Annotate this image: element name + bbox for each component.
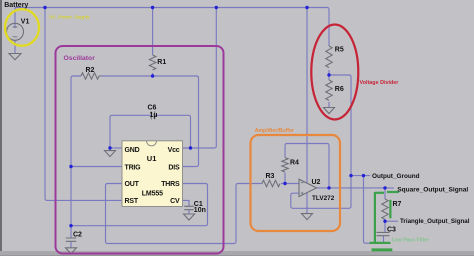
node TRIG tap (69, 165, 72, 168)
node Triangle output junction (383, 220, 386, 223)
svg-text:Square_Output_Signal: Square_Output_Signal (397, 187, 468, 194)
svg-text:Oscillator: Oscillator (64, 55, 96, 62)
annotation green bracket top-left (375, 192, 384, 194)
wire Vcc net from top rail (183, 8, 217, 149)
svg-text:1µ: 1µ (150, 112, 158, 119)
resistor R4 (282, 158, 288, 172)
annotation purple box Oscillator (56, 46, 224, 254)
wire voltage divider mid to virtual ground / op-amp non-inverting input (291, 75, 351, 208)
op-amp input polarity marks (301, 183, 304, 195)
svg-text:Battery: Battery (4, 2, 28, 9)
svg-text:R1: R1 (157, 59, 166, 66)
svg-text:RST: RST (125, 198, 139, 205)
svg-text:Output_Ground: Output_Ground (372, 173, 420, 180)
annotation green bracket left bar (374, 192, 376, 243)
svg-text:Voltage Divider: Voltage Divider (360, 80, 400, 86)
node battery rail junction (43, 6, 46, 9)
wire C3 return to Output_Ground (364, 176, 386, 244)
svg-text:U1: U1 (147, 154, 157, 163)
node Output_Ground junction 1 (349, 174, 352, 177)
wire R2 right to R1 junction to DIS (101, 76, 199, 167)
annotation green bottom bar (372, 248, 393, 251)
left window edge (0, 0, 2, 256)
op-amp U2 triangle (299, 179, 317, 196)
capacitor C1 plates (184, 206, 194, 209)
annotation orange box amplifier (251, 135, 341, 231)
node GND/C6 junction (108, 146, 111, 149)
svg-text:GND: GND (125, 147, 140, 154)
wire op-amp output row to Square node (317, 187, 395, 189)
wire Triangle label stub (385, 220, 398, 222)
annotation green mid bottom bar (370, 242, 391, 244)
wire OUT loop to R3 (106, 184, 263, 244)
node R3/R4 junction (283, 182, 286, 185)
wire C1 ground stub (188, 210, 190, 214)
wire R4 bottom lead (284, 173, 286, 184)
svg-text:CV: CV (170, 198, 180, 205)
wire C6 left leg (110, 115, 151, 148)
svg-text:DIS: DIS (168, 165, 180, 172)
wire R1 top lead (152, 8, 154, 56)
svg-text:OUT: OUT (125, 181, 140, 188)
ground op-amp V- (302, 214, 313, 220)
ground C1 (184, 214, 195, 220)
ground R6 (324, 108, 335, 114)
svg-text:TRIG: TRIG (125, 165, 142, 172)
node R1/R2 junction (151, 74, 154, 77)
wire Output_Ground label stub (351, 175, 370, 177)
wire GND pin (110, 147, 122, 149)
node R1 top rail junction (151, 6, 154, 9)
wire C3 bottom stub (383, 236, 385, 243)
svg-text:DC_Power_Supply: DC_Power_Supply (49, 15, 90, 20)
svg-text:10n: 10n (194, 207, 206, 214)
capacitor C6 plates (151, 111, 154, 119)
resistor R1 (149, 55, 155, 70)
bottom window edge (0, 251, 474, 256)
wire R3 right to op-amp inverting input (281, 183, 299, 185)
node C2 tap (69, 224, 72, 227)
wire battery top lead (14, 8, 16, 29)
battery V1 (7, 23, 24, 40)
wire C2 ground stub (70, 241, 72, 248)
node Vcc/C6 junction (189, 146, 192, 149)
svg-text:Vcc: Vcc (168, 147, 180, 154)
annotation green bracket right bar (389, 200, 391, 219)
wire C6 right leg (155, 115, 191, 148)
node op-amp output junction (327, 186, 330, 189)
IC U1 LM555 body (122, 141, 183, 207)
wire CV to C1 (183, 200, 190, 206)
svg-text:Low Pass Filter: Low Pass Filter (392, 237, 429, 243)
wire R5 bottom to R6 top (328, 70, 330, 80)
svg-text:TLV272: TLV272 (312, 195, 335, 202)
wire R7 bottom to Triangle node to C3 (384, 220, 386, 233)
wire THRS to TRIG/C2 node (71, 184, 208, 226)
svg-text:C3: C3 (387, 226, 396, 233)
svg-text:THRS: THRS (161, 181, 180, 188)
svg-text:LM555: LM555 (142, 190, 163, 197)
wire R7 top lead (384, 188, 386, 199)
svg-text:R2: R2 (86, 67, 95, 74)
svg-text:U2: U2 (312, 179, 321, 186)
svg-text:Triangle_Output_Signal: Triangle_Output_Signal (400, 218, 470, 225)
wire R6 ground stub (328, 102, 330, 108)
node op-amp supply rail junction (305, 6, 308, 9)
wire TRIG (71, 166, 122, 168)
capacitor C3 plates (377, 232, 390, 235)
svg-text:C6: C6 (148, 104, 157, 111)
wire op-amp V- ground stub (306, 193, 308, 214)
svg-text:V1: V1 (21, 19, 30, 26)
wire R4 feedback top (285, 144, 329, 188)
node divider midpoint (327, 73, 330, 76)
annotation yellow circle around battery (5, 9, 39, 46)
wire GND pin ground stub (109, 148, 111, 151)
annotation red ellipse voltage divider (311, 25, 358, 120)
svg-text:R7: R7 (393, 201, 402, 208)
wire left rail R2/TRIG/C2 (71, 76, 81, 226)
node Square output junction (383, 186, 386, 189)
wire op-amp V+ supply from top rail (306, 8, 308, 184)
resistor R6 (326, 80, 332, 100)
svg-text:C2: C2 (73, 231, 82, 238)
ground battery (9, 54, 21, 60)
resistor R3 (262, 180, 280, 186)
node Vcc rail junction (215, 6, 218, 9)
svg-text:R4: R4 (290, 159, 299, 166)
resistor R2 (81, 73, 101, 79)
wire battery bottom lead (14, 40, 16, 54)
wire C2 top lead (70, 226, 72, 238)
node Output_Ground junction 2 (362, 174, 365, 177)
svg-text:R6: R6 (335, 86, 344, 93)
resistor R7 (382, 199, 388, 219)
wire R1 bottom lead (152, 73, 154, 76)
resistor R5 (326, 46, 332, 68)
svg-text:R3: R3 (266, 173, 275, 180)
ground C2 (66, 248, 77, 254)
ground 555 GND pin (105, 151, 116, 157)
wire RST net from top rail (45, 8, 122, 201)
svg-text:Amplifier/Buffer: Amplifier/Buffer (255, 128, 294, 134)
capacitor C2 plates (66, 238, 76, 241)
wire top power rail (15, 8, 329, 47)
annotation green bracket top-right (387, 191, 399, 193)
svg-text:R5: R5 (335, 47, 344, 54)
